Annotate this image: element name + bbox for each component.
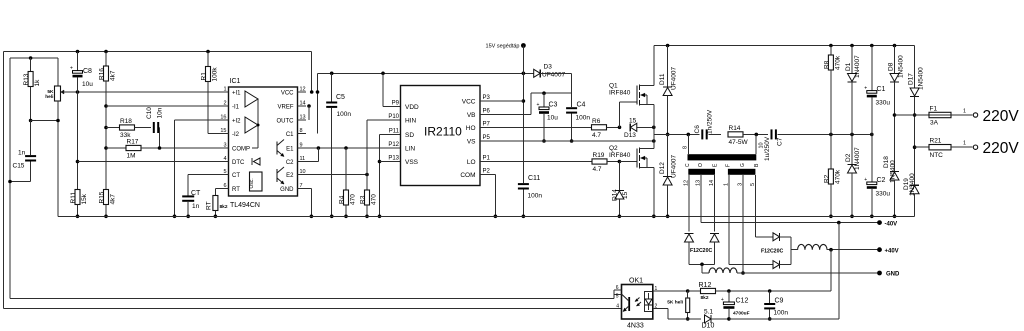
resistor R14 47-5W [728,132,743,137]
svg-text:1n: 1n [18,150,26,157]
wire -40V line [701,222,879,224]
svg-text:LIN: LIN [405,146,415,153]
wire -40V drop to housekeeping [838,223,840,319]
wire pin2 jog [653,308,668,310]
svg-text:1N5400: 1N5400 [889,160,896,183]
zener D14 15V [618,162,620,191]
svg-text:330u: 330u [876,191,891,198]
svg-text:R18: R18 [120,118,132,125]
svg-text:P12: P12 [388,142,399,148]
capacitor C10 [135,127,152,129]
svg-text:4N33: 4N33 [627,323,644,330]
svg-text:15V segédtáp: 15V segédtáp [486,44,520,50]
resistor R1 [207,52,209,67]
OK1 LED [645,292,653,312]
inductor L2 [701,264,703,273]
svg-text:C10: C10 [146,107,153,119]
diode D3 UF4007 [534,69,541,77]
wire E2 to HIN [298,174,368,176]
capacitor C3 [543,93,545,107]
svg-text:-I1: -I1 [232,105,240,111]
op-amp IC1 TL494CN box [229,87,298,196]
svg-text:4k7: 4k7 [110,70,117,81]
svg-text:IRF840: IRF840 [609,90,631,97]
svg-text:heli: heli [45,94,53,100]
svg-text:O: O [698,163,704,167]
svg-text:1n/250V: 1n/250V [707,109,714,134]
svg-text:D11: D11 [659,73,666,85]
fuse F1 3A [895,114,930,116]
svg-text:+: + [70,66,73,72]
svg-text:4k7: 4k7 [110,194,117,205]
wire VB line [480,114,531,116]
svg-text:F: F [725,164,731,167]
wire housekeeping bottom [729,318,839,320]
svg-text:IC1: IC1 [230,78,241,85]
svg-text:470k: 470k [834,55,841,70]
IC1 left pins [220,91,229,93]
wire E1-C2 tie [317,148,319,162]
svg-text:Osc.: Osc. [249,178,255,188]
resistor R3 [366,175,368,191]
zener D13 15V [630,123,637,131]
svg-text:8k2: 8k2 [701,295,709,301]
wire LO line [480,161,592,163]
svg-text:6: 6 [223,183,226,189]
diode D18 1N5400 [890,171,899,173]
svg-text:-I2: -I2 [232,132,240,138]
wire GND line [743,272,880,274]
node R13/C15 [29,119,33,123]
IC1 transistor 2 [276,169,278,182]
svg-text:R6: R6 [592,118,601,125]
svg-text:100n: 100n [774,310,789,317]
wire snubber line pin8 [654,133,700,135]
svg-text:VSS: VSS [405,159,419,166]
terminal 220V bottom [973,145,977,149]
wire pin3 drop [742,175,744,273]
svg-text:OK1: OK1 [629,278,643,285]
svg-text:R1: R1 [201,72,208,81]
svg-text:VDD: VDD [405,104,419,111]
svg-text:VB: VB [467,112,476,119]
svg-text:1: 1 [223,87,226,93]
svg-text:RT: RT [206,201,213,210]
capacitor C9 100n [769,291,771,303]
svg-text:D8: D8 [888,62,895,71]
wire E1 to LIN [298,147,401,149]
svg-text:VREF: VREF [277,105,293,111]
svg-text:R14: R14 [729,125,741,132]
svg-text:C11: C11 [528,175,540,182]
inductor L1 [791,249,798,251]
svg-text:1N5400: 1N5400 [898,55,905,78]
IC1 comparator 1 [245,91,258,107]
svg-text:+: + [537,102,540,108]
wire +40V feedback drop [830,250,832,291]
capacitor C5 [331,73,333,101]
capacitor CT [188,174,220,176]
svg-text:OUTC: OUTC [277,119,295,125]
svg-text:P1: P1 [483,156,491,162]
svg-text:220V: 220V [983,140,1020,157]
wire pin1 line [653,290,688,292]
svg-text:5: 5 [616,294,619,300]
svg-text:P5: P5 [483,135,491,141]
svg-text:Q1: Q1 [609,83,618,90]
svg-text:4.7: 4.7 [592,132,601,139]
transformer TR1 primary [688,154,757,160]
svg-text:1n: 1n [192,203,200,210]
IC1 comparator 2 [245,117,258,133]
svg-text:C15: C15 [13,163,25,170]
resistor R12 8k2 [688,290,701,292]
svg-text:+: + [721,297,724,303]
svg-text:E2: E2 [286,173,294,179]
wire VDD drop [382,73,384,106]
svg-text:VCC: VCC [281,91,294,97]
svg-text:4: 4 [616,304,619,310]
svg-text:4: 4 [223,156,226,162]
wire pin14 to rectifier [714,175,716,232]
diode D1 1N4007 [850,44,854,48]
svg-text:-40V: -40V [885,221,898,227]
svg-text:E1: E1 [286,147,294,153]
resistor R21 NTC [915,146,929,148]
svg-text:D3: D3 [544,64,553,71]
wire pin16 line [175,119,221,121]
svg-text:F12C20C: F12C20C [761,249,783,255]
svg-text:R17: R17 [127,139,139,146]
wire pin1 drop [728,175,730,265]
svg-text:P2: P2 [483,169,491,175]
svg-text:D1: D1 [845,62,852,71]
wire HO line [480,126,592,128]
svg-text:R12: R12 [699,282,712,289]
svg-text:3A: 3A [930,120,939,127]
svg-text:COMP: COMP [232,147,250,153]
svg-text:1: 1 [963,141,966,147]
svg-text:8: 8 [300,128,303,134]
svg-text:C1: C1 [877,86,886,93]
svg-text:12: 12 [300,87,306,93]
capacitor C6 1n/250V [701,129,703,139]
svg-text:15k: 15k [81,193,88,204]
wire VREF-OUTC tie [307,104,311,108]
capacitor C12 4700uF [728,291,730,302]
svg-text:470k: 470k [834,169,841,184]
svg-text:+40V: +40V [885,248,899,254]
svg-text:RT: RT [232,187,240,193]
diode D8 1N5400 [893,44,897,48]
svg-text:+I1: +I1 [232,91,241,97]
svg-text:R21: R21 [930,138,942,145]
svg-text:P7: P7 [483,121,491,127]
wire pin13 to -40V [700,175,702,223]
capacitor C1 330u [870,44,874,48]
wire VS line [480,140,654,142]
svg-text:UF4007: UF4007 [671,66,678,90]
diode D2 1N4007 [851,134,853,164]
svg-text:330u: 330u [876,100,891,107]
resistor R15 [104,190,109,205]
svg-text:NTC: NTC [930,152,944,159]
svg-text:13: 13 [300,115,306,121]
svg-text:47-5W: 47-5W [729,139,749,146]
svg-text:UF4007: UF4007 [542,72,566,79]
wire pin2 line [106,105,220,107]
svg-text:15: 15 [220,128,226,134]
node 15V segedtap [521,43,526,48]
optocoupler OK1 4N33 [622,285,653,320]
svg-text:100n: 100n [528,193,543,200]
svg-text:LO: LO [467,159,476,166]
rectifier F12C20C left pair [685,233,694,235]
gate driver IR2110 box [401,86,481,186]
svg-text:100n: 100n [576,115,591,122]
svg-text:P13: P13 [388,156,399,162]
wire VCC P3 [480,100,523,102]
wire pin15 line [208,133,220,135]
svg-text:VS: VS [467,139,476,146]
resistor R2 470k [830,134,832,169]
svg-text:D2: D2 [845,153,852,162]
resistor R19 [592,159,607,164]
IC1 transistor 1 [276,142,278,155]
svg-text:GND: GND [280,187,294,193]
svg-text:D14: D14 [612,189,619,201]
svg-text:1N4007: 1N4007 [854,147,861,170]
svg-text:10: 10 [759,142,765,148]
svg-text:100n: 100n [337,111,352,118]
svg-text:5.1: 5.1 [704,309,713,316]
resistor R8 470k [829,44,833,48]
svg-text:DTC: DTC [232,160,245,166]
svg-text:4700uF: 4700uF [733,311,750,317]
svg-text:1M: 1M [127,153,136,160]
wire feedback B (y58 line to optocoupler pin5) [9,58,11,299]
IC1 oscillator [250,172,263,191]
svg-text:10n: 10n [157,107,164,118]
svg-text:470: 470 [350,194,357,205]
svg-text:P9: P9 [392,101,400,107]
svg-text:4.7: 4.7 [593,166,602,173]
svg-text:Q2: Q2 [609,145,618,152]
svg-text:C8: C8 [83,68,92,75]
svg-text:P3: P3 [483,95,491,101]
svg-text:SD: SD [405,132,414,139]
svg-text:C6: C6 [694,125,701,134]
resistor R17 [106,147,126,149]
svg-text:1k: 1k [34,79,41,87]
wire 15V rail [318,72,534,74]
wire feedback A (top rail to optocoupler pin4) [3,52,5,309]
capacitor C2 330u [871,134,873,182]
svg-text:R3: R3 [360,195,367,204]
svg-text:1N4007: 1N4007 [854,55,861,78]
wire VCC tie to top rail [310,90,314,94]
svg-text:1N5400: 1N5400 [909,173,916,196]
svg-text:D12: D12 [659,162,666,174]
resistor R16 [105,52,107,67]
svg-text:P10: P10 [388,114,399,120]
svg-text:220V: 220V [983,108,1020,125]
svg-text:TL494CN: TL494CN [230,202,260,209]
wire y58 branch [10,57,58,59]
svg-text:IR2110: IR2110 [424,125,462,139]
svg-text:R13: R13 [23,73,30,85]
wire DTC line [78,161,221,163]
svg-text:R16: R16 [99,68,106,80]
wire COM drop [480,174,495,176]
svg-text:R4: R4 [339,195,346,204]
svg-text:1: 1 [963,109,966,115]
wire Q1 gate [619,102,621,127]
svg-text:D13: D13 [624,132,636,139]
svg-text:16: 16 [220,115,226,121]
svg-text:C1: C1 [286,132,294,138]
wire pin5 drop [754,175,756,237]
svg-text:HO: HO [466,125,476,132]
svg-text:3: 3 [223,143,226,149]
svg-text:C7: C7 [777,137,784,146]
svg-text:G: G [740,163,746,167]
zener D10 5.1V [688,318,701,320]
potentiometer 5K heli [55,86,61,101]
svg-text:F12C20C: F12C20C [690,248,712,254]
svg-text:14: 14 [300,101,306,107]
resistor R4 [345,148,347,190]
svg-text:15: 15 [629,118,637,125]
capacitor C7 1u/250V [771,129,773,139]
diode D11 UF4007 [654,45,915,47]
transformer TR1 secondary left [688,169,715,175]
diode D17 1N5400 [914,46,916,89]
svg-text:5K heli: 5K heli [667,300,683,306]
svg-text:10u: 10u [82,81,93,88]
svg-text:C2: C2 [286,160,294,166]
svg-text:C4: C4 [577,102,586,109]
svg-text:1N5400: 1N5400 [918,67,925,90]
svg-text:COM: COM [460,172,475,179]
terminal 220V top [973,113,977,117]
svg-text:C12: C12 [736,298,749,305]
svg-text:GND: GND [886,272,900,278]
svg-text:10u: 10u [547,115,558,122]
svg-text:D17: D17 [908,73,915,85]
resistor R13 [30,58,32,72]
resistor R6 [592,125,607,130]
resistor R18 [106,127,120,129]
wire Q2 drain link [653,141,655,149]
wire SD/VSS tie [380,134,401,136]
svg-text:IRF840: IRF840 [609,152,631,159]
capacitor C4 [571,93,573,107]
svg-text:P6: P6 [483,109,491,115]
wire pin12 to rectifier [688,175,690,232]
svg-text:CT: CT [232,173,240,179]
svg-text:C3: C3 [549,102,558,109]
IC1 right pins [298,91,307,93]
OK1 phototransistor [628,297,630,311]
capacitor C8 [77,52,79,71]
wire main ground rail [58,215,915,217]
wire top rail 15V left [4,51,312,53]
svg-text:8: 8 [683,146,689,149]
svg-text:1u/250V: 1u/250V [764,136,771,161]
svg-text:D10: D10 [702,323,715,330]
rectifier F12C20C right pair [755,236,773,238]
transformer TR1 secondary right [728,169,756,175]
diode D12 UF4007 [667,134,669,176]
diode D19 1N5400 [910,184,919,186]
svg-text:100k: 100k [212,67,219,82]
svg-text:470: 470 [371,194,378,205]
svg-text:15: 15 [622,191,629,199]
svg-text:6: 6 [616,285,619,291]
svg-text:R11: R11 [70,192,77,204]
svg-text:C9: C9 [775,298,784,305]
svg-text:C2: C2 [877,177,886,184]
svg-text:C5: C5 [336,94,345,101]
svg-text:R8: R8 [823,60,830,69]
svg-text:R2: R2 [823,174,830,183]
svg-text:P11: P11 [389,129,400,135]
svg-text:C: C [685,163,691,167]
svg-text:+: + [864,86,867,92]
IC1 DTC comparator [251,158,253,165]
svg-text:VCC: VCC [462,99,476,106]
wire GND pin7 drop [298,188,312,190]
resistor R7 8k2 (RT) [215,188,220,190]
svg-text:2: 2 [223,101,226,107]
svg-text:+: + [864,177,867,183]
svg-text:HIN: HIN [405,118,417,125]
resistor R11 [77,92,79,190]
svg-text:F1: F1 [930,106,938,113]
capacitor C15 [30,121,32,156]
svg-text:UF4007: UF4007 [671,154,678,178]
svg-text:5: 5 [223,169,226,175]
svg-text:R19: R19 [593,152,605,159]
svg-text:R15: R15 [99,191,106,203]
svg-text:+I2: +I2 [232,119,241,125]
wire wiper to pin1 [61,91,221,93]
svg-text:8k2: 8k2 [220,204,228,210]
